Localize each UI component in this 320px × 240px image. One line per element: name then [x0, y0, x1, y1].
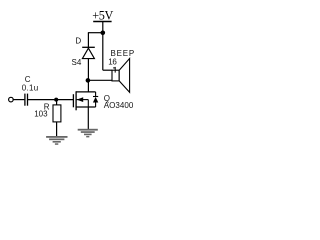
wire speaker top pin [103, 69, 112, 71]
transistor body-to-source vertical [87, 100, 89, 107]
speaker cone [119, 59, 129, 93]
diode D cathode bar [82, 46, 95, 48]
wire junction down to resistor [56, 100, 58, 105]
transistor body stub [77, 99, 89, 101]
wire diode cathode vertical [87, 33, 89, 47]
svg-text:D: D [75, 36, 81, 45]
node drain junction [86, 78, 91, 83]
svg-text:0.1u: 0.1u [22, 84, 39, 93]
svg-text:+5V: +5V [92, 9, 113, 23]
wire drain node right to speaker bottom pin [88, 79, 112, 81]
body diode triangle [93, 97, 98, 103]
diode D triangle [82, 48, 94, 58]
wire resistor to ground [56, 122, 58, 136]
speaker BEEP body box [112, 70, 119, 81]
transistor drain rail [76, 91, 96, 93]
wire source down to ground [87, 107, 89, 129]
node gate junction [54, 98, 58, 102]
speaker plus polarity mark [114, 67, 116, 73]
capacitor C right plate [27, 94, 29, 106]
wire capacitor to gate [28, 99, 73, 101]
svg-text:AO3400: AO3400 [104, 101, 134, 110]
resistor R box [53, 105, 61, 122]
svg-text:S4: S4 [72, 58, 82, 67]
terminal circle (input) [9, 97, 14, 102]
wire +5V bar down to junction and to speaker corner [102, 22, 104, 70]
body diode top lead [95, 92, 97, 97]
ground under transistor [78, 129, 98, 138]
capacitor C left plate [24, 94, 26, 106]
power +5V bar [93, 21, 111, 23]
transistor source rail [76, 106, 96, 108]
wire terminal to capacitor [13, 99, 24, 101]
ground under resistor [46, 136, 67, 145]
body diode cathode bar [93, 96, 98, 98]
transistor Q1 gate plate [72, 94, 74, 107]
transistor body arrow [77, 97, 84, 102]
node junction on +5V vertical [101, 31, 106, 36]
wire diode anode down to drain node [87, 59, 89, 92]
wire junction left to diode [88, 32, 103, 34]
svg-text:BEEP: BEEP [111, 49, 136, 58]
body diode bottom lead [95, 103, 97, 108]
svg-text:16: 16 [108, 58, 117, 67]
svg-text:103: 103 [34, 109, 48, 118]
transistor channel line [75, 91, 77, 110]
